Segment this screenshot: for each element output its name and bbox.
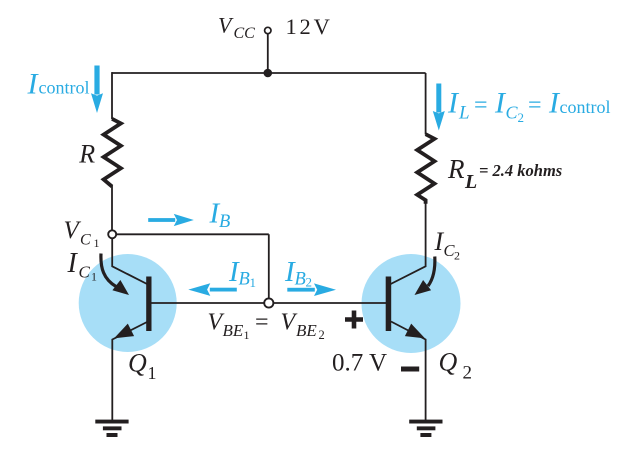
svg-text:0.7 V: 0.7 V (332, 349, 387, 376)
svg-text:Q: Q (439, 348, 458, 377)
svg-text:R: R (78, 140, 95, 169)
svg-text:I: I (67, 248, 79, 279)
svg-text:12V: 12V (286, 14, 333, 39)
svg-text:= 2.4 kohms: = 2.4 kohms (479, 161, 562, 180)
svg-text:=: = (474, 93, 488, 119)
svg-text:1: 1 (244, 328, 250, 342)
svg-text:2: 2 (454, 249, 460, 263)
svg-text:B: B (219, 212, 230, 232)
svg-text:C: C (80, 232, 91, 249)
svg-text:control: control (39, 78, 90, 98)
svg-text:1: 1 (250, 275, 257, 290)
svg-text:2: 2 (306, 274, 313, 289)
svg-text:=: = (255, 310, 269, 336)
svg-text:2: 2 (319, 328, 325, 342)
svg-text:L: L (464, 171, 477, 193)
svg-text:BE: BE (223, 321, 244, 340)
svg-text:BE: BE (296, 321, 317, 340)
svg-text:1: 1 (91, 270, 97, 284)
svg-text:2: 2 (463, 363, 473, 384)
svg-text:V: V (281, 310, 298, 336)
svg-text:L: L (458, 103, 470, 124)
svg-text:=: = (528, 93, 542, 119)
svg-text:control: control (560, 97, 611, 117)
svg-text:1: 1 (148, 363, 157, 383)
svg-text:B: B (239, 269, 250, 289)
svg-text:C: C (79, 263, 91, 282)
svg-text:2: 2 (518, 110, 525, 125)
svg-text:R: R (447, 154, 465, 184)
svg-text:B: B (295, 269, 306, 289)
svg-text:CC: CC (234, 25, 256, 42)
svg-text:1: 1 (94, 236, 100, 250)
svg-text:Q: Q (128, 349, 147, 378)
